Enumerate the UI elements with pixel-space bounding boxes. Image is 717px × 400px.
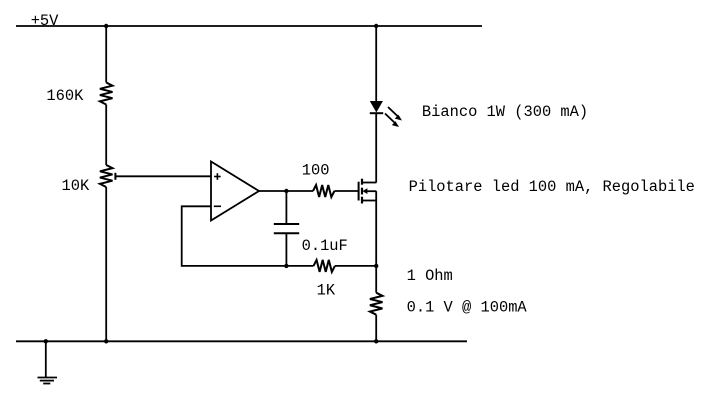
junction: ground rail / ground symbol <box>44 339 48 343</box>
potentiometer wiper bar <box>114 173 116 180</box>
wire: 1 Ohm to ground rail <box>375 315 377 342</box>
svg-text:1 Ohm: 1 Ohm <box>407 267 453 285</box>
wire: +5V to 160K top <box>105 26 107 83</box>
junction: source node <box>374 264 378 268</box>
ground symbol <box>38 341 58 383</box>
op-amp U1 <box>211 162 259 221</box>
junction: ground rail / divider <box>104 339 108 343</box>
potentiometer 10K <box>100 165 113 187</box>
wire: 100 to MOSFET gate <box>334 190 358 192</box>
svg-text:100: 100 <box>302 162 330 180</box>
capacitor 0.1uF <box>274 191 299 266</box>
label +5V <box>31 12 59 30</box>
svg-text:0.1uF: 0.1uF <box>302 237 348 255</box>
LED D1 <box>370 101 402 127</box>
label Bianco 1W (300 mA) <box>422 103 588 121</box>
resistor 1K <box>314 260 335 272</box>
svg-text:Bianco 1W (300 mA): Bianco 1W (300 mA) <box>422 103 588 121</box>
label 0.1uF <box>302 237 348 255</box>
label 10K <box>62 177 90 195</box>
svg-text:Pilotare led 100 mA, Regolabil: Pilotare led 100 mA, Regolabile <box>409 178 695 196</box>
wire: 1K to source node <box>335 265 376 267</box>
wire: LED cathode to MOSFET drain <box>375 113 377 182</box>
junction: bottom node / capacitor <box>284 264 288 268</box>
junction: +5V / LED branch <box>374 24 378 28</box>
+5V power rail <box>16 25 482 27</box>
label Pilotare led 100 mA, Regolabile <box>409 178 695 196</box>
svg-text:160K: 160K <box>46 87 84 105</box>
label 1K <box>317 281 336 299</box>
ground rail <box>16 340 467 342</box>
wire: +5V to LED anode <box>375 26 377 101</box>
resistor 100 <box>313 185 334 197</box>
wire: wiper to op-amp + input <box>115 175 211 177</box>
resistor 1 Ohm <box>370 293 383 315</box>
wire: source node to 1 Ohm <box>375 266 377 293</box>
MOSFET Q1 <box>359 179 377 204</box>
wire: op-amp output to 100 <box>259 190 313 192</box>
label 0.1 V @ 100mA <box>407 298 528 316</box>
label 1 Ohm <box>407 267 453 285</box>
junction: ground rail / 1 Ohm <box>374 339 378 343</box>
junction: output / capacitor <box>284 189 288 193</box>
label 100 <box>302 162 330 180</box>
wire: MOSFET source down <box>375 201 377 266</box>
svg-text:10K: 10K <box>62 177 90 195</box>
wire: bottom node to 1K <box>286 265 313 267</box>
resistor 160K <box>100 83 113 105</box>
svg-text:+5V: +5V <box>31 12 59 30</box>
junction: +5V / divider <box>104 24 108 28</box>
label 160K <box>46 87 84 105</box>
wire: 160K to 10K <box>105 105 107 166</box>
wire: 10K to ground rail <box>105 187 107 341</box>
feedback wire: - input to bottom node <box>182 206 287 266</box>
svg-text:1K: 1K <box>317 281 336 299</box>
svg-text:0.1 V @ 100mA: 0.1 V @ 100mA <box>407 298 528 316</box>
